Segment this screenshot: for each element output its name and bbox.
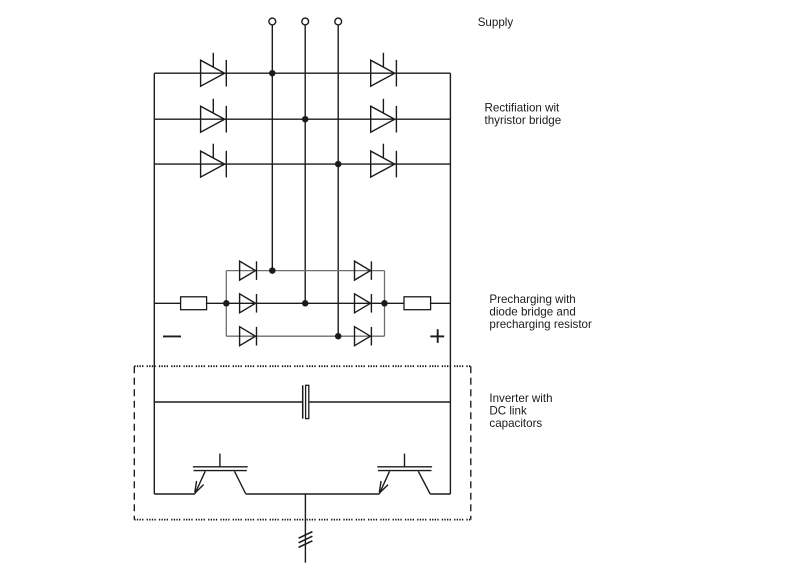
label Supply	[478, 16, 514, 29]
wire precharge row A	[226, 270, 384, 272]
wire DC link row right	[310, 401, 451, 403]
supply terminal circle 1	[269, 18, 276, 25]
diode D1	[240, 261, 257, 280]
wire precharge right rail	[384, 271, 386, 337]
precharging resistor R2 (right)	[404, 297, 431, 310]
diode D4	[355, 261, 372, 280]
label Inverter	[489, 392, 552, 430]
svg-text:capacitors: capacitors	[489, 417, 542, 430]
thyristor V4	[371, 53, 397, 87]
thyristor V3	[201, 144, 227, 178]
thyristor V5	[371, 99, 397, 133]
wire supply phase 3 vertical	[337, 25, 339, 336]
plus polarity mark	[430, 329, 444, 343]
wire output drop vertical	[304, 494, 306, 563]
supply terminal circle 2	[302, 18, 309, 25]
wire rectifier row 3	[154, 163, 450, 165]
node phase1/row1	[269, 70, 276, 77]
node phase3/rowC	[335, 333, 342, 340]
diode D2	[240, 294, 257, 313]
diode D6	[355, 327, 372, 346]
wire rectifier row 1	[154, 72, 450, 74]
label Precharging	[489, 293, 592, 331]
node phase1/rowA	[269, 267, 276, 274]
thyristor V2	[201, 99, 227, 133]
wire DC link row left	[154, 401, 302, 403]
wire rectifier row 2	[154, 118, 450, 120]
svg-text:Rectifiation wit: Rectifiation wit	[485, 101, 561, 114]
svg-text:Precharging with: Precharging with	[489, 293, 575, 306]
node rowB/left rail	[223, 300, 230, 307]
node phase2/rowB	[302, 300, 309, 307]
wire emitter bottom left segment	[154, 493, 195, 495]
node junction dots rectifier	[269, 70, 341, 167]
wire precharge left rail	[225, 271, 227, 337]
transistor Q2 (right IGBT)	[377, 454, 432, 494]
node dots precharge	[223, 267, 388, 339]
minus polarity mark	[163, 335, 181, 337]
wire bottom right segment	[430, 493, 450, 495]
svg-text:Supply: Supply	[478, 16, 514, 29]
thyristor V1	[201, 53, 227, 87]
ground (chassis) symbol	[299, 532, 313, 548]
label Rectification	[485, 101, 562, 127]
wire precharge row B	[154, 302, 450, 304]
diode D5	[355, 294, 372, 313]
svg-text:Inverter with: Inverter with	[489, 392, 552, 405]
inverter dashed enclosure	[134, 366, 471, 519]
svg-text:DC link: DC link	[489, 405, 527, 418]
node rowB/right rail	[381, 300, 388, 307]
wire precharge row C	[226, 335, 384, 337]
transistor Q1 (left IGBT)	[193, 454, 248, 494]
wire left DC rail vertical	[153, 73, 155, 494]
node phase2/row2	[302, 116, 309, 123]
wire supply phase 2 vertical	[304, 25, 306, 303]
wire right DC rail vertical	[449, 73, 451, 494]
diode D3	[240, 327, 257, 346]
thyristor V6	[371, 144, 397, 178]
precharge bridge frame (gray ladder)	[226, 271, 384, 337]
svg-text:thyristor bridge: thyristor bridge	[485, 114, 562, 127]
svg-text:diode bridge and: diode bridge and	[489, 305, 575, 318]
supply terminal circle 3	[335, 18, 342, 25]
svg-text:precharging resistor: precharging resistor	[489, 318, 592, 331]
precharging resistor R1 (left)	[181, 297, 207, 310]
capacitor C1 (DC link)	[303, 385, 309, 418]
node phase3/row3	[335, 161, 342, 168]
wire bottom middle segment	[246, 493, 379, 495]
wire supply phase 1 vertical	[271, 25, 273, 271]
